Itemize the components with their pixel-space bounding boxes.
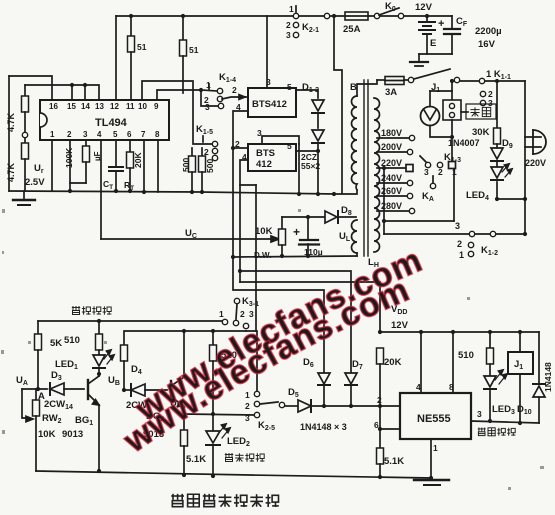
switch K1-1 contacts 2,3: [480, 91, 485, 96]
svg-text:2: 2: [235, 139, 240, 149]
svg-text:1: 1: [459, 250, 464, 260]
svg-text:D3: D3: [51, 370, 62, 382]
svg-text:10K: 10K: [38, 429, 56, 440]
resistor 500a: [191, 148, 193, 156]
wire BTS412a pin4: [233, 111, 248, 257]
wire K1-4 to BTS412 pin2 arrow: [222, 97, 245, 99]
wire LED4 to right column: [497, 198, 525, 200]
svg-text:220V: 220V: [525, 158, 546, 168]
switch K2-5 contacts: [254, 391, 259, 396]
capacitor Ct on pin5: [115, 140, 117, 167]
svg-text:B: B: [350, 82, 357, 93]
capacitor CF 2200u: [451, 16, 453, 29]
svg-text:LED1: LED1: [55, 359, 78, 371]
svg-text:D.W.: D.W.: [254, 251, 271, 260]
transformer B primary winding: [352, 96, 357, 190]
svg-text:2CW14: 2CW14: [44, 399, 73, 411]
switch K0: [374, 13, 379, 18]
resistor 510a: [97, 319, 101, 323]
wire tap 260V: [377, 195, 407, 197]
node Ur terminal circle: [22, 132, 27, 137]
svg-text:K0: K0: [385, 1, 396, 13]
diode D6: [318, 373, 330, 384]
svg-text:+: +: [438, 18, 444, 30]
capacitor 110u: [307, 217, 309, 240]
svg-text:D7: D7: [352, 359, 363, 371]
diode D2 of 2CZ pair: [312, 130, 324, 141]
svg-text:5.1K: 5.1K: [384, 456, 404, 467]
resistor 5.1K a: [181, 430, 188, 446]
resistor 500b: [201, 148, 203, 156]
wire center feed from battery node: [334, 16, 342, 193]
svg-text:UL: UL: [339, 231, 351, 243]
svg-text:5K: 5K: [50, 338, 62, 349]
svg-text:12V: 12V: [391, 320, 409, 331]
svg-text:Ur: Ur: [34, 163, 44, 175]
svg-text:3: 3: [205, 102, 210, 112]
wire K2-5 common feed: [240, 184, 256, 186]
svg-text:2: 2: [438, 167, 443, 177]
inductor UL winding: [352, 220, 357, 253]
wire pin6: [380, 428, 400, 430]
wire BTS412a pin3 from rail: [266, 16, 268, 88]
switch K1-4 contacts: [217, 88, 222, 93]
wire pin10 feedback to K1-5: [142, 81, 212, 144]
svg-text:200V: 200V: [381, 142, 402, 152]
svg-text:1 K1-1: 1 K1-1: [486, 69, 511, 81]
LED1: [93, 355, 105, 366]
ground symbol battery: [410, 61, 428, 63]
resistor 510d: [488, 330, 492, 334]
svg-text:K1-2: K1-2: [481, 245, 498, 257]
svg-text:2.5V: 2.5V: [25, 177, 45, 188]
svg-text:51: 51: [137, 42, 147, 52]
svg-text:3: 3: [266, 77, 271, 87]
wire 2CZ junction to BTS412b pin5: [296, 150, 318, 152]
wire TL494 pin16: [9, 76, 52, 100]
svg-text:K1-5: K1-5: [196, 124, 213, 136]
relay contact box: [443, 100, 461, 120]
svg-text:TL494: TL494: [95, 117, 128, 129]
wire K3-1 feed column: [233, 257, 324, 373]
svg-text:5: 5: [287, 82, 292, 92]
svg-text:µF: µF: [93, 151, 102, 161]
diode D9 IN4007: [491, 148, 503, 159]
wire K1-3 common down to K1-2 bus: [453, 169, 455, 221]
svg-text:10: 10: [138, 102, 147, 111]
svg-text:11: 11: [126, 102, 135, 111]
svg-text:4: 4: [242, 152, 247, 162]
svg-text:240V: 240V: [381, 173, 402, 183]
resistor Rt 20K on pin6: [129, 140, 131, 152]
wire pin1 to ground rail: [51, 140, 53, 191]
diode D1 of 2CZ pair: [312, 100, 324, 111]
svg-text:LED4: LED4: [466, 190, 489, 202]
switch J1 blade: [414, 69, 450, 79]
wire BTS412a pin5 to rectifier: [296, 90, 318, 98]
IC U3 BTS412 lower: [248, 144, 296, 171]
svg-text:D6: D6: [303, 357, 314, 369]
svg-text:3: 3: [83, 130, 88, 139]
svg-text:4: 4: [236, 102, 241, 112]
svg-text:25A: 25A: [343, 24, 361, 35]
wire 220V tap down to K1-2 bus: [383, 168, 385, 234]
switch K1-5 contacts: [212, 141, 217, 146]
LED4: [491, 167, 503, 178]
node junction on rail at battery feed: [332, 14, 336, 18]
svg-text:12: 12: [110, 102, 119, 111]
svg-text:3: 3: [257, 128, 262, 138]
svg-text:110µ: 110µ: [304, 247, 323, 257]
svg-text:KA: KA: [422, 191, 434, 203]
svg-text:260V: 260V: [381, 186, 402, 196]
svg-text:55×2: 55×2: [301, 161, 320, 171]
svg-text:D4: D4: [131, 364, 142, 376]
svg-text:RW2: RW2: [42, 413, 62, 425]
node junction on rail at R51a: [129, 14, 133, 18]
transformer secondary winding: [374, 98, 380, 252]
svg-text:180V: 180V: [381, 128, 402, 138]
diode D10 IN4148: [538, 332, 540, 384]
svg-text:2: 2: [232, 85, 237, 95]
svg-text:CT: CT: [103, 179, 113, 191]
svg-text:3: 3: [245, 413, 250, 423]
transistor Q2 BG2 9013: [170, 381, 172, 400]
svg-text:+: +: [293, 225, 300, 239]
wire Uc from pin4: [101, 238, 272, 240]
svg-text:9013: 9013: [62, 429, 83, 440]
svg-text:K2-1: K2-1: [302, 22, 319, 34]
svg-text:3A: 3A: [385, 87, 397, 98]
wire left border vertical: [8, 76, 10, 191]
wire top rail 12V: [116, 15, 452, 17]
svg-text:1: 1: [433, 443, 438, 453]
wire UA node: [22, 388, 47, 390]
svg-text:LED2: LED2: [227, 436, 250, 448]
wire tap 180V: [377, 137, 409, 139]
switch K2-1 contacts: [293, 13, 298, 18]
svg-text:10K: 10K: [255, 226, 273, 237]
switch K1-2 contacts on bus: [469, 231, 474, 236]
svg-text:500: 500: [205, 159, 215, 173]
svg-text:412: 412: [256, 159, 272, 170]
wire relay box to output label: [461, 111, 468, 113]
svg-text:2200µ: 2200µ: [475, 26, 502, 37]
svg-text:3: 3: [424, 167, 429, 177]
resistor 5.1K b: [379, 429, 381, 448]
resistor 5K: [37, 321, 39, 334]
diode D7: [345, 373, 357, 384]
wire TL494 pins 13-15 bus: [25, 85, 99, 100]
svg-text:www.elecfans.com: www.elecfans.com: [116, 270, 415, 460]
ground symbol left: [23, 191, 25, 199]
wire pin1 to ground: [430, 439, 432, 478]
wire BTS412b pin5 to bus: [298, 144, 300, 194]
svg-text:4: 4: [416, 382, 421, 392]
svg-text:16V: 16V: [478, 39, 496, 50]
svg-text:K2-5: K2-5: [258, 420, 275, 432]
svg-text:3: 3: [477, 409, 482, 419]
svg-text:7: 7: [141, 130, 146, 139]
wire bottom rail: [36, 471, 431, 478]
potentiometer 10K: [281, 217, 283, 229]
svg-text:6: 6: [374, 420, 379, 430]
wire pin4 down to Uc: [100, 140, 102, 239]
ground symbol NE555: [414, 479, 449, 481]
svg-text:D1-2: D1-2: [302, 82, 319, 94]
svg-text:12V: 12V: [415, 2, 433, 13]
wire pin3 output: [471, 421, 539, 423]
wire inverter rail 2: [124, 331, 246, 345]
power socket 220V output: [533, 130, 546, 154]
svg-text:E: E: [430, 38, 436, 49]
wire BTS412b pin3 up: [262, 136, 299, 144]
svg-text:2: 2: [67, 130, 72, 139]
wire pot top rail: [282, 216, 325, 218]
wire pin2 down: [70, 140, 86, 183]
resistor 100K on pin3: [85, 140, 87, 146]
svg-text:BG1: BG1: [75, 415, 93, 427]
switch K3-1 common: [234, 298, 239, 303]
svg-text:2: 2: [245, 401, 250, 411]
resistor 30K column from K1-1 wire: [495, 79, 499, 83]
svg-text:14: 14: [81, 102, 90, 111]
svg-text:UA: UA: [16, 375, 28, 387]
wire pin9 feedback to K1-4: [157, 90, 218, 106]
svg-text:4.7K: 4.7K: [6, 163, 16, 183]
relay J1 coil box: [518, 330, 522, 334]
resistor 51b: [182, 16, 184, 40]
wire ground rail under TL494: [9, 191, 334, 194]
resistor 510b D4 column: [121, 345, 128, 361]
svg-text:2: 2: [286, 20, 291, 30]
svg-text:2: 2: [457, 239, 462, 249]
resistor 4.7K upper: [24, 85, 26, 96]
wire D7 feed: [240, 271, 351, 373]
svg-text:D8: D8: [341, 205, 352, 217]
svg-text:280V: 280V: [381, 201, 402, 211]
watermark www.elecfans.com: [134, 268, 426, 430]
resistor 20K: [378, 330, 382, 334]
wire pin8: [452, 332, 454, 393]
battery E 12V: [425, 14, 429, 18]
wire pin7 to ground rail: [143, 140, 145, 192]
LED3: [484, 376, 496, 387]
switch K1-3 contacts: [425, 162, 430, 167]
svg-text:5.1K: 5.1K: [186, 454, 206, 465]
svg-text:1: 1: [289, 4, 294, 14]
zener D3 2CW14: [49, 383, 51, 395]
svg-text:3: 3: [249, 309, 254, 319]
svg-text:BTS: BTS: [256, 148, 275, 159]
svg-text:D9: D9: [502, 138, 513, 150]
wire tap 240V: [377, 182, 407, 184]
lamp output indicator: [421, 107, 440, 126]
wire battery bottom: [419, 53, 452, 55]
switch K3-1 contacts: [222, 319, 227, 324]
wire right column down: [524, 81, 526, 233]
wire pin8 to ground rail: [157, 140, 159, 192]
svg-text:30K: 30K: [472, 127, 490, 138]
svg-text:3: 3: [488, 98, 493, 108]
wire BTS412b pin2: [233, 147, 248, 149]
svg-text:2: 2: [377, 395, 382, 405]
svg-text:8: 8: [449, 382, 454, 392]
svg-text:2: 2: [204, 147, 209, 157]
wire emitter to K2-5: [184, 414, 254, 415]
wire UL bottom return: [233, 256, 357, 257]
wire to K1-1: [460, 80, 479, 82]
wire lamp bottom loop: [430, 120, 452, 137]
svg-text:20K: 20K: [133, 152, 143, 168]
svg-text:4.7K: 4.7K: [6, 113, 16, 133]
svg-text:UC: UC: [185, 228, 197, 240]
wire tap 280V: [377, 210, 409, 212]
svg-text:K1-4: K1-4: [219, 72, 236, 84]
svg-text:UB: UB: [108, 375, 120, 387]
svg-text:9: 9: [154, 102, 159, 111]
op-amp IC U1 TL494 body: [40, 100, 169, 140]
svg-text:220V: 220V: [381, 158, 402, 168]
svg-text:1N4148: 1N4148: [543, 362, 553, 392]
IC U2 BTS412 upper: [248, 88, 296, 117]
svg-text:510: 510: [64, 335, 80, 346]
svg-text:5: 5: [113, 130, 118, 139]
potentiometer RW2 10K: [35, 389, 37, 400]
svg-text:500: 500: [181, 158, 191, 172]
wire BTS412b pin4: [240, 160, 248, 282]
LED2: [206, 431, 220, 443]
wire 12V rail NE555: [380, 331, 539, 333]
wire tap 220V: [377, 167, 406, 169]
diode D8: [325, 211, 337, 223]
svg-text:1: 1: [219, 309, 224, 319]
svg-text:D10: D10: [517, 404, 532, 416]
svg-text:D5: D5: [288, 387, 299, 399]
wire primary bottom to bus: [334, 190, 357, 194]
svg-text:4: 4: [97, 130, 102, 139]
svg-text:NE555: NE555: [417, 413, 451, 425]
wire tap 200V: [377, 151, 407, 153]
svg-text:1N4007: 1N4007: [448, 138, 480, 148]
transformer core: [363, 80, 365, 256]
svg-text:1: 1: [50, 130, 55, 139]
svg-text:15: 15: [67, 102, 76, 111]
svg-text:20K: 20K: [384, 357, 402, 368]
svg-text:3: 3: [455, 221, 460, 231]
svg-text:2: 2: [240, 309, 245, 319]
svg-text:BTS412: BTS412: [252, 99, 287, 110]
IC U4 NE555: [400, 393, 471, 439]
svg-text:510: 510: [458, 350, 474, 361]
svg-text:3: 3: [286, 30, 291, 40]
svg-text:LED3: LED3: [492, 404, 515, 416]
svg-text:J1: J1: [431, 82, 440, 94]
switch KA contact: [430, 183, 435, 188]
node junction on rail at R51b: [181, 14, 185, 18]
resistor 51a: [130, 16, 132, 36]
wire pin4: [420, 332, 422, 393]
svg-text:100K: 100K: [64, 147, 74, 168]
svg-text:1N4148 × 3: 1N4148 × 3: [300, 422, 347, 432]
diode D5: [285, 405, 298, 407]
svg-text:16: 16: [49, 102, 58, 111]
wire inverter rail 1: [38, 320, 222, 322]
transistor Q1 BG1 9013: [87, 380, 89, 399]
fuse 3A: [377, 79, 385, 81]
wire wiper feed: [22, 389, 28, 418]
wire primary top to fuse line: [357, 80, 377, 96]
svg-text:13: 13: [95, 102, 104, 111]
svg-text:1: 1: [245, 390, 250, 400]
wire 12V feed to NE555 block: [240, 282, 380, 332]
zener D4 2CW1: [122, 388, 126, 392]
wire left vertical from top rail to TL494 pin12: [115, 16, 117, 100]
svg-text:1: 1: [452, 167, 457, 177]
svg-text:1: 1: [206, 80, 211, 90]
svg-text:51: 51: [189, 45, 199, 55]
resistor 510c LED2 column: [212, 331, 214, 345]
svg-text:5: 5: [287, 141, 292, 151]
fuse 25A: [345, 12, 368, 20]
resistor 4.7K lower: [24, 138, 26, 143]
svg-text:6: 6: [127, 130, 132, 139]
svg-text:8: 8: [155, 130, 160, 139]
title caption: [171, 494, 279, 507]
svg-text:CF: CF: [456, 16, 468, 28]
